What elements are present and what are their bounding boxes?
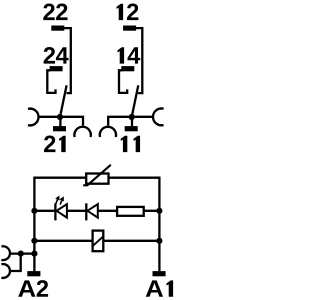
wire NO fixed contact 14 (119, 70, 127, 93)
relay coil K1 (93, 231, 104, 252)
label 22 (43, 4, 54, 21)
diode D2 triangle (87, 204, 97, 218)
terminal marker 21 (53, 126, 66, 131)
common rail 11 (108, 117, 153, 126)
common rail 21 (38, 117, 83, 126)
terminal marker 12 (123, 26, 136, 31)
LED row wire (34, 210, 159, 212)
label 24 (44, 47, 55, 64)
terminal marker A2 (27, 271, 40, 276)
switch arm left (60, 85, 67, 117)
wire NO fixed contact 24 (47, 70, 55, 93)
label A1 (146, 280, 163, 296)
terminal marker 24 (50, 66, 63, 71)
wire NC fixed contact 12 (135, 28, 142, 93)
junction node A2 bridge (18, 251, 24, 257)
coil row wire (34, 240, 159, 242)
socket arc right outer (153, 109, 164, 126)
junction node resistor row right (156, 208, 162, 214)
module box right edge (158, 178, 160, 271)
socket arc right inner (100, 127, 116, 137)
A2 socket lower lead (10, 254, 21, 271)
A2 bridge wire (10, 252, 35, 254)
terminal marker A1 (153, 271, 166, 276)
terminal marker 22 (51, 26, 64, 31)
module box left edge (33, 178, 35, 272)
label 21 (44, 136, 55, 153)
varistor strike (83, 165, 111, 186)
terminal marker 11 (125, 126, 138, 131)
terminal marker 14 (121, 66, 134, 71)
junction node A2 edge (31, 251, 37, 257)
stub to 11 marker (131, 117, 133, 127)
socket arc left outer (28, 109, 39, 126)
stub to 21 marker (59, 117, 61, 127)
wire NC fixed contact 22 (64, 28, 71, 93)
junction node coil row left (31, 238, 37, 244)
junction node LED row left (31, 208, 37, 214)
LED D1 cathode bar (54, 203, 56, 220)
A2 socket arc upper (1, 246, 10, 260)
resistor R1 (117, 207, 144, 216)
A2 socket arc lower (1, 264, 10, 278)
socket arc left inner (74, 127, 90, 137)
switch arm right (132, 85, 139, 117)
label 11 (121, 136, 128, 152)
diode D2 cathode bar (85, 203, 87, 220)
varistor RV body (86, 174, 108, 184)
LED D1 light arrows (56, 200, 62, 205)
varistor row wire (33, 177, 160, 179)
label 12 (117, 4, 124, 20)
junction node coil row right (156, 238, 162, 244)
LED D1 triangle (57, 204, 67, 218)
label 14 (118, 47, 125, 63)
junction node 11 (129, 114, 135, 120)
label A2 (18, 280, 35, 296)
junction node 21 (57, 114, 63, 120)
coil diagonal (93, 236, 104, 246)
